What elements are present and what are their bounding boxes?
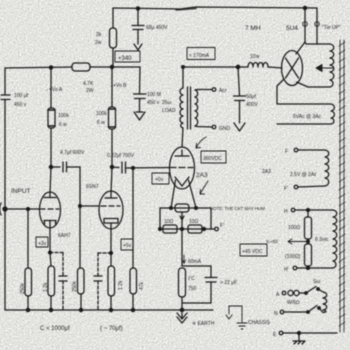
wire rail corner to filament lead 2 (316, 8, 318, 44)
wire C1 top lead (137, 8, 139, 25)
wire to optional bypass C7 (50, 252, 63, 254)
junction dot rail at stage1 (49, 66, 52, 69)
terminal N (280, 310, 284, 314)
W2 label coil bumps (331, 104, 334, 124)
junction dot rail at stage2 (110, 65, 113, 68)
junction dot stage2 plate node (110, 165, 113, 168)
junction dot rail at 5U4 filament (303, 6, 306, 9)
wire C3 to V2 grid (80, 167, 99, 206)
wire R6 to ground rail (50, 296, 52, 310)
wire center tap to X (288, 239, 308, 244)
wire R9 to ground rail (132, 294, 134, 310)
boxed label V3 plate volts (201, 151, 226, 163)
wire switch to primary top (318, 289, 323, 292)
switch S1 blade B (308, 306, 317, 313)
annotation cathode current (183, 255, 186, 264)
resistor R12 750 ohm 2A3 cathode (179, 268, 186, 297)
terminal mark lead 2 (315, 22, 320, 27)
P1 wiper arrow (180, 212, 184, 220)
resistor R1 2k 2W (110, 28, 117, 48)
legend chassis symbol (226, 306, 247, 329)
ground under C1 (134, 44, 142, 50)
capacitor C7 bypass stage1 dashed (62, 253, 64, 276)
wire row to F terminal (212, 228, 214, 230)
resistor R9 2A3 grid leak (130, 268, 137, 294)
wire node B drop to C5 (139, 67, 142, 93)
capacitor C2 100uF 450V left rail (1, 95, 10, 100)
V3 filament (171, 177, 196, 208)
wire plate node to tube V2 (111, 167, 112, 194)
wire driver B+ rail (5, 67, 72, 68)
terminal A (282, 291, 286, 295)
wire plate node to tube V1 (50, 167, 51, 193)
capacitor C5 100uF 450V decoupling (134, 94, 147, 112)
ground earth arrow (177, 313, 187, 323)
terminal F to filament winding (215, 227, 219, 231)
junction dot center tap (307, 240, 310, 243)
capacitor C3 4.7uF 600V coupling (51, 162, 80, 172)
capacitor C9 22uF (205, 266, 217, 303)
V4 internal electrodes (286, 58, 299, 78)
wire R1 to +340 node (112, 48, 114, 67)
junction dot heater bottom (307, 267, 310, 270)
wire R4 top (111, 67, 113, 107)
transformer T1 core (188, 87, 191, 129)
wire left rail upper (4, 68, 6, 94)
boxed label V3 grid volts (152, 173, 169, 184)
resistor R14 100 ohm humdinger lower (305, 244, 312, 266)
wire R8 to ground rail (110, 296, 112, 310)
junction dots ground bus (26, 308, 29, 311)
capacitor C8 bypass stage2 dashed (97, 253, 99, 275)
transformer T2 winding W4 6.3V coil (333, 210, 337, 268)
wire R7 to ground rail (80, 294, 82, 310)
wire W3 to F prime (298, 186, 325, 187)
input jack terminal (0, 203, 1, 215)
wire R3 to node B (90, 66, 140, 68)
wire V4 top to winding W1 (296, 42, 306, 54)
terminal H (291, 208, 295, 212)
wire cathode to R6 (50, 253, 51, 267)
wire H to W4 (295, 209, 333, 211)
resistor R6 cathode stage1 (48, 266, 55, 296)
switch S1 blade A (306, 287, 316, 294)
wire fuse to switch (299, 292, 306, 294)
choke L1 10H (248, 63, 268, 68)
resistor R2 100k 6W stage1 plate load (48, 108, 55, 128)
wire filament to hum pot ends (160, 207, 211, 209)
terminal F prime (294, 185, 298, 189)
label V1 bias boxed (36, 237, 48, 247)
V1 grid dashes (41, 208, 59, 210)
wire cathode RC bottom (182, 297, 211, 310)
capacitor C6 50uF 400V (234, 67, 246, 123)
wire V1 grid leak drop (27, 209, 29, 268)
junction dot V2 cathode split (110, 252, 113, 255)
transformer T1 output primary winding (180, 88, 183, 128)
wire E to chassis (283, 332, 337, 334)
V1 plate (44, 193, 56, 198)
transformer T2 primary coil (323, 292, 327, 313)
ground arrow under C6 (234, 123, 245, 131)
wire pot left end down (159, 208, 161, 229)
label V2 bias boxed (121, 239, 133, 250)
junction dot 2A3 grid node (132, 167, 135, 170)
resistor R10 10 ohm (163, 225, 177, 233)
wire W2 label loop bottom (277, 123, 331, 125)
capacitor C4 0.22uF 600V coupling (112, 162, 170, 173)
transformer T2 winding W3 2.5V coil (325, 150, 329, 186)
wire hum resistor row (160, 228, 212, 230)
wire R2 to plate node (50, 128, 52, 167)
wire output B+ rail (183, 66, 248, 68)
wire 5U4 filament lead 1 (304, 8, 306, 42)
junction dots hum row (159, 228, 162, 231)
resistor R3 4.7K 2W series dropper (72, 63, 90, 71)
capacitor C1 68uF 450V (132, 26, 144, 45)
resistor R8 cathode stage2 (110, 253, 112, 266)
terminal mark lead 1 (303, 22, 308, 27)
junction dot V2 grid node (79, 205, 82, 208)
V1 cathode (44, 221, 56, 253)
wire switch to primary bottom (319, 308, 323, 313)
tube V3 2A3 envelope (170, 147, 195, 189)
wire wiper to cathode network (181, 220, 183, 266)
wire N to switch blade B (284, 311, 308, 313)
junction dots filament legs (170, 207, 173, 210)
terminal F (294, 148, 298, 152)
wire cathode RC top (182, 265, 211, 267)
fuse F1 (288, 290, 293, 295)
wire W2 label loop top (277, 79, 331, 104)
annotation arrow to plate (196, 137, 206, 148)
junction dot heater top (307, 209, 310, 212)
terminal output gnd (212, 125, 216, 129)
junction dot grid node V1 (27, 208, 30, 211)
triode V1 6SN7a envelope (40, 192, 61, 228)
junction dot top rail at C1 (136, 7, 139, 10)
node +340 boxed label (115, 51, 140, 62)
wire T1 primary to V3 plate (182, 128, 183, 147)
triode V2 6SN7b envelope (99, 191, 123, 229)
terminal output hot (212, 88, 216, 92)
V2 grid dashes (101, 205, 120, 207)
junction dot V1 cathode split (49, 251, 52, 254)
wire ground bus (5, 309, 213, 311)
V3 plate (175, 150, 189, 156)
wire R4 to stage2 plate node (111, 129, 113, 167)
junction dot at C6 branch (236, 65, 239, 68)
V2 plate (105, 194, 117, 198)
wire top B+ rail (113, 7, 317, 9)
transformer T2 core laminations (340, 40, 344, 332)
wire drop to R1 (112, 8, 114, 28)
resistor R4 100k 1W stage2 plate load (109, 107, 116, 129)
chassis ground at E (293, 333, 305, 344)
wire grid leak R9 drop (132, 168, 134, 268)
resistor R5 grid leak stage1 (25, 268, 32, 296)
wire to optional bypass C8 (98, 252, 111, 254)
boxed label cathode volts (240, 244, 267, 256)
wire left rail lower (4, 100, 6, 310)
wire overlap blob on top rail (176, 9, 196, 11)
wire OPT primary top feed (182, 67, 184, 88)
wire F to W3 (298, 149, 325, 151)
resistor R13 100 ohm humdinger upper (307, 210, 309, 217)
terminal E (279, 331, 283, 335)
wire T1 secondary gnd lead (195, 126, 212, 127)
tube V4 5U4 envelope (282, 51, 303, 86)
potentiometer P1 hum balance (175, 204, 189, 212)
annotation arrow to filament (200, 181, 208, 194)
wire V4 bottom to winding W1 (297, 82, 309, 87)
wire R5 to ground rail (27, 296, 29, 310)
wire choke to rectifier (268, 67, 282, 68)
junction dot stage1 plate node (49, 165, 52, 168)
V2 cathode (104, 219, 118, 254)
resistor R11 10 ohm (188, 225, 202, 233)
V3 grid dashes (171, 167, 193, 169)
wire T1 secondary hot lead (195, 89, 212, 92)
transformer T1 secondary winding (195, 90, 198, 126)
W1 coil bumps (330, 44, 334, 87)
junction dot E ground (298, 332, 301, 335)
ground arrow under C5 (134, 112, 145, 120)
W1 polarity arrow (316, 65, 333, 72)
wire W4 to H prime (297, 267, 333, 269)
wire pot right end down (210, 208, 212, 229)
transformer T2 winding W1 5V loop (306, 44, 330, 87)
wire R2 top (50, 67, 52, 108)
junction dot ground bus at 2A3 cathode (180, 308, 183, 311)
resistor R7 grid leak stage2 (79, 206, 81, 268)
wire input to V1 grid (6, 208, 40, 210)
terminal H prime (293, 266, 297, 270)
boxed label plate current 170mA (187, 48, 215, 60)
